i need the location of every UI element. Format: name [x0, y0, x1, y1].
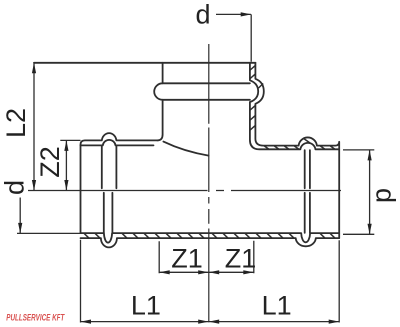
crotch curve [163, 142, 208, 156]
branch right wall inner with bead loop and shoulder inner line [250, 63, 339, 150]
left socket inner top line [81, 140, 154, 146]
arrowhead Z1 right outward [243, 270, 254, 274]
dimension Z2 extension and line [60, 140, 80, 190]
branch bead inner horizontal lines [163, 83, 250, 100]
arrowhead L2 up [32, 63, 36, 74]
bottom band lower line with bead dips [81, 238, 340, 247]
arrowhead L1 right outward [329, 320, 340, 324]
dimension Z1 extensions and line [159, 241, 254, 274]
arrowhead d right down [368, 224, 372, 235]
svg-text:PULLSERVICE KFT: PULLSERVICE KFT [6, 313, 65, 323]
svg-text:d: d [0, 180, 29, 195]
arrowhead Z2 down [64, 180, 68, 191]
arrowhead d top right [241, 12, 252, 16]
arrowhead d left down [18, 223, 22, 234]
arrowhead L1 left outward [81, 320, 92, 324]
horizontal centerline [28, 190, 341, 192]
arrowhead Z1 left outward [159, 270, 170, 274]
dimension L2 line [33, 63, 35, 190]
arrowhead L1 center right-pointing [198, 320, 209, 324]
svg-text:Z2: Z2 [35, 146, 65, 178]
left socket outer silhouette [81, 133, 158, 233]
svg-text:L2: L2 [1, 108, 31, 138]
branch left wall with bead bump and crotch fillet [154, 63, 162, 141]
dimension d top leader line [216, 14, 251, 61]
right socket bead vertical pair [305, 150, 310, 233]
left socket bead vertical lower pair [104, 193, 113, 233]
arrowhead d right up [368, 150, 372, 161]
dimension d right lines and extensions [343, 150, 374, 234]
bottom band upper line with bead dips [81, 233, 340, 243]
svg-text:Z1: Z1 [171, 244, 203, 274]
dimension L1 extensions and line [81, 240, 340, 323]
arrowhead Z1 center left-pointing [209, 270, 220, 274]
arrowhead L2 down [32, 180, 36, 191]
svg-text:d: d [195, 0, 210, 30]
arrowhead Z2 up [64, 140, 68, 151]
vertical centerline [208, 44, 210, 322]
hatch ticks right shoulder band [264, 138, 335, 149]
branch right wall outer with bead loop, shoulder, right socket outer, mouth face [255, 63, 339, 238]
arrowhead L1 center left-pointing [209, 320, 220, 324]
branch rim line [34, 62, 255, 64]
left socket bead vertical upper pair [102, 146, 117, 188]
hatch ticks branch right wall [250, 66, 263, 131]
svg-text:d: d [370, 188, 400, 203]
svg-text:L1: L1 [131, 291, 161, 321]
svg-text:L1: L1 [262, 291, 292, 321]
svg-text:Z1: Z1 [225, 244, 257, 274]
arrowhead Z1 center right-pointing [198, 270, 209, 274]
dimension d left line and extension [17, 198, 81, 234]
hatch ticks bottom band [84, 66, 335, 238]
